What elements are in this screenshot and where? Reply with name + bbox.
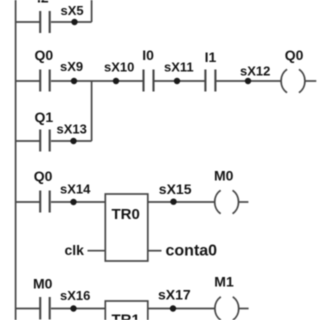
rung 2 wire: coil Q0 to right end <box>305 80 317 82</box>
contact Q0 (rung 4) <box>40 191 50 213</box>
contact Q0 <box>40 70 50 92</box>
contact M0 (rung 5) <box>40 297 50 320</box>
junction dot sX15 <box>170 199 176 205</box>
junction dot sX11 <box>174 78 180 84</box>
svg-text:Q0: Q0 <box>34 168 53 184</box>
svg-text:sX5: sX5 <box>61 3 84 18</box>
rung 5 wire: rail to contact M0 <box>16 308 40 310</box>
rung 1 wire: rail to contact I2 <box>16 21 40 23</box>
svg-text:I1: I1 <box>205 49 217 65</box>
svg-text:sX9: sX9 <box>60 59 83 74</box>
rung 4 wire: contact to timer TR0 <box>51 201 105 203</box>
svg-text:sX10: sX10 <box>104 60 134 75</box>
rung 5 wire: coil M1 to end <box>239 308 249 310</box>
svg-text:sX15: sX15 <box>159 181 192 197</box>
rung 4 wire: coil M0 to end <box>239 201 249 203</box>
svg-text:TR0: TR0 <box>112 206 140 223</box>
junction dot sX14 <box>70 199 76 205</box>
rung 2 wire: contact Q0 to contact I0 <box>51 80 143 82</box>
rung 1 riser wire to top edge <box>91 0 93 22</box>
junction dot sX17 <box>170 305 176 311</box>
left power rail <box>15 0 17 320</box>
svg-text:Q0: Q0 <box>285 47 304 63</box>
rung 1 wire: contact to riser <box>51 21 92 23</box>
svg-text:sX11: sX11 <box>164 60 194 75</box>
svg-text:clk: clk <box>65 242 85 258</box>
svg-text:I2: I2 <box>37 0 49 6</box>
svg-text:I0: I0 <box>142 47 154 63</box>
svg-text:M1: M1 <box>214 274 234 290</box>
junction dot sX12 <box>245 78 251 84</box>
junction dot sX16 <box>70 305 76 311</box>
coil M0 <box>215 190 239 213</box>
svg-text:conta0: conta0 <box>166 243 218 260</box>
conta0 output wire <box>148 250 162 252</box>
svg-text:sX17: sX17 <box>158 286 191 302</box>
timer block TR1 (cut off at bottom) <box>105 301 148 320</box>
contact I2 <box>40 11 50 33</box>
riser wire joining rung 3 to rung 2 <box>91 81 93 141</box>
rung 5 wire: timer TR1 to coil M1 <box>148 308 215 310</box>
junction dot sX10 <box>113 78 119 84</box>
svg-text:sX16: sX16 <box>60 288 90 303</box>
contact Q1 <box>40 130 50 152</box>
rung 5 wire: contact to timer TR1 <box>51 308 105 310</box>
svg-text:Q0: Q0 <box>35 47 54 63</box>
rung 3 wire: rail to contact Q1 <box>16 140 40 142</box>
svg-text:sX13: sX13 <box>57 122 87 137</box>
rung 2 wire: contact I0 to contact I1 <box>154 80 204 82</box>
junction dot sX13 <box>70 138 76 144</box>
svg-text:M0: M0 <box>33 276 53 292</box>
coil M1 <box>215 297 239 320</box>
svg-text:M0: M0 <box>214 168 234 184</box>
coil Q0 <box>281 69 305 92</box>
rung 3 wire: contact Q1 to riser <box>51 140 92 142</box>
timer block TR0 <box>105 194 148 261</box>
junction dot sX9 <box>71 78 77 84</box>
rung 2 wire: rail to contact Q0 <box>16 80 40 82</box>
contact I0 <box>144 70 154 92</box>
svg-text:sX14: sX14 <box>60 182 91 197</box>
contact I1 <box>205 70 215 92</box>
svg-text:sX12: sX12 <box>240 64 270 79</box>
rung 2 wire: contact I1 to coil Q0 <box>216 80 281 82</box>
svg-text:Q1: Q1 <box>35 109 54 125</box>
rung 4 wire: timer TR0 to coil M0 <box>148 201 215 203</box>
rung 4 wire: rail to contact Q0 <box>16 201 40 203</box>
clk input wire <box>88 250 106 252</box>
svg-text:TR1: TR1 <box>112 312 140 320</box>
junction dot sX5 <box>71 19 77 25</box>
